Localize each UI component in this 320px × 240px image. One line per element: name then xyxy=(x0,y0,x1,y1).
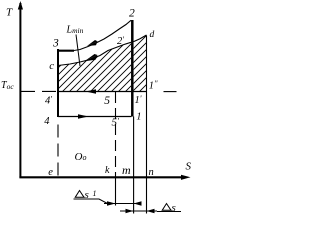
Toc dashed line left xyxy=(21,90,57,92)
svg-text:1: 1 xyxy=(93,189,97,198)
svg-text:Toc: Toc xyxy=(1,80,14,91)
label delta-s xyxy=(162,204,171,211)
T axis xyxy=(19,3,21,178)
svg-text:e: e xyxy=(48,167,53,178)
svg-text:1'': 1'' xyxy=(149,79,158,91)
projection line d-n xyxy=(146,36,148,214)
dimension arrow at n left xyxy=(147,209,155,213)
svg-text:Oo: Oo xyxy=(75,151,87,163)
dimension line k-m xyxy=(104,203,141,205)
dimension arrow at m right xyxy=(126,209,134,213)
label delta-s1 xyxy=(75,191,84,198)
T axis arrow xyxy=(18,1,23,10)
svg-text:2: 2 xyxy=(129,7,135,19)
hatched area Lmin right strip between 1-2 line and d-n line xyxy=(134,35,147,91)
underline of delta-s xyxy=(157,211,181,213)
underline of delta-s1 xyxy=(74,199,108,204)
dimension arrow at m xyxy=(134,201,142,205)
projection dashed line 5-5'-k xyxy=(115,92,117,176)
arrow on curve 3-2 xyxy=(87,41,98,46)
wire bold vertical 3-c-4'-4 xyxy=(57,49,59,117)
dimension line m-n xyxy=(120,210,157,212)
wire bold segment at point 3 xyxy=(57,50,74,52)
svg-text:S: S xyxy=(186,161,192,173)
Toc dashed line right xyxy=(164,91,177,93)
svg-text:1: 1 xyxy=(136,111,141,122)
svg-text:m: m xyxy=(122,163,131,177)
curve 3-2 upper isobar xyxy=(74,20,131,50)
hatched area Lmin left of line 1-2 xyxy=(58,42,131,91)
svg-text:3: 3 xyxy=(52,37,59,49)
leader line from Lmin xyxy=(76,35,80,67)
arrow on 4-1 line pointing right xyxy=(78,114,89,119)
projection line 1-m xyxy=(133,117,135,214)
svg-text:1': 1' xyxy=(135,94,142,106)
svg-text:k: k xyxy=(105,165,110,176)
S axis arrow xyxy=(181,175,191,180)
projection dashed line 4-e xyxy=(57,125,59,177)
wire 4'-5-1'-1'' at Toc level xyxy=(57,91,147,93)
svg-text:5: 5 xyxy=(104,95,110,107)
wire bold vertical 1-2 xyxy=(131,20,134,117)
svg-text:5': 5' xyxy=(112,117,120,129)
svg-text:Lmin: Lmin xyxy=(66,25,84,36)
svg-text:T: T xyxy=(6,7,13,19)
svg-text:c: c xyxy=(49,60,54,72)
svg-text:n: n xyxy=(149,167,154,178)
projection line k below axis xyxy=(115,176,117,206)
wire 4-5'-1 xyxy=(58,116,132,118)
arrow on 1'-4' line pointing left xyxy=(86,89,97,94)
arrow on curve c-2' xyxy=(85,55,98,61)
dimension arrow at k xyxy=(107,201,116,205)
svg-text:4: 4 xyxy=(44,116,50,127)
curve c-2'-d lower isobar xyxy=(58,35,147,66)
svg-text:4': 4' xyxy=(45,95,52,107)
S axis xyxy=(19,176,186,178)
svg-text:d: d xyxy=(150,30,155,40)
